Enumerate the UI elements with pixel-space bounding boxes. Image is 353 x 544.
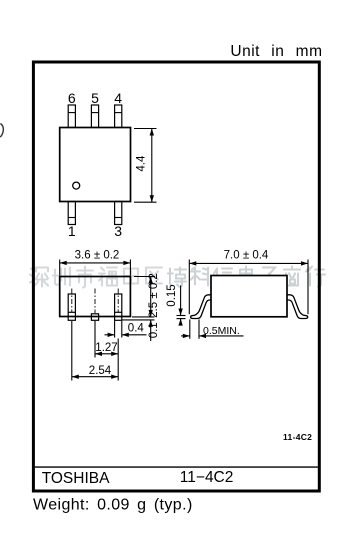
watermark char 博 bbox=[168, 268, 186, 287]
dimension 1.27 extension lines bbox=[94, 321, 96, 358]
dimension 0.15 arrows bbox=[180, 286, 182, 316]
dimension 0.5MIN extension lines bbox=[189, 319, 191, 338]
watermark char 科 bbox=[191, 268, 208, 286]
svg-text:3: 3 bbox=[114, 223, 122, 239]
svg-text:11−4C2: 11−4C2 bbox=[180, 469, 234, 486]
svg-text:Unit in mm: Unit in mm bbox=[230, 43, 322, 60]
stray mark at left edge bbox=[0, 124, 3, 138]
watermark char 市 bbox=[77, 267, 93, 288]
dimension 3.6 extension lines bbox=[59, 260, 61, 276]
svg-text:0.4: 0.4 bbox=[128, 323, 145, 335]
lead 2 front (middle, hidden) bbox=[94, 289, 96, 314]
pin 1 bbox=[68, 202, 75, 225]
dimension 0.4 line bbox=[105, 334, 115, 336]
watermark char 信 bbox=[214, 269, 232, 286]
svg-text:3.6 ± 0.2: 3.6 ± 0.2 bbox=[75, 250, 120, 262]
dimension 3.6 line bbox=[60, 262, 131, 264]
dimension 7.0 extension lines bbox=[188, 260, 190, 315]
dimension 2.5 line bbox=[150, 277, 152, 317]
svg-text:2.54: 2.54 bbox=[89, 365, 112, 377]
pin 5 bbox=[91, 105, 98, 128]
svg-text:Weight: 0.09 g (typ.): Weight: 0.09 g (typ.) bbox=[33, 497, 193, 514]
dimension 1.27 line bbox=[95, 353, 118, 355]
svg-text:7.0 ± 0.4: 7.0 ± 0.4 bbox=[224, 250, 269, 262]
dimension 0.1 extension lines bbox=[132, 316, 155, 318]
pin 4 bbox=[115, 105, 122, 128]
dimension 4.4 line bbox=[151, 129, 153, 203]
dimension 0.4 extension lines bbox=[114, 321, 116, 338]
pin 3 bbox=[115, 202, 122, 225]
svg-text:1.27: 1.27 bbox=[95, 342, 117, 354]
package body front view bbox=[60, 277, 131, 317]
dimension 0.5MIN line bbox=[181, 335, 190, 337]
svg-text:TOSHIBA: TOSHIBA bbox=[42, 470, 110, 487]
dimension 2.54 line bbox=[72, 376, 118, 378]
watermark char 福 bbox=[99, 268, 117, 286]
svg-text:0.15: 0.15 bbox=[166, 284, 178, 306]
lead 3 front (right) bbox=[115, 294, 122, 320]
watermark char 深 bbox=[30, 268, 48, 287]
svg-text:1: 1 bbox=[68, 223, 76, 239]
svg-text:11-4C2: 11-4C2 bbox=[283, 432, 312, 442]
svg-text:6: 6 bbox=[68, 90, 76, 106]
lead 1 front (left) bbox=[68, 294, 75, 320]
pin 6 bbox=[68, 105, 75, 128]
svg-text:4: 4 bbox=[114, 90, 122, 106]
svg-text:0.1: 0.1 bbox=[148, 322, 160, 338]
pin 1 indicator circle bbox=[73, 182, 80, 189]
drawing frame bbox=[33, 62, 319, 491]
right gull-wing lead bbox=[287, 295, 308, 319]
watermark char 圳 bbox=[53, 268, 70, 286]
svg-text:2.5 ± 0.2: 2.5 ± 0.2 bbox=[148, 273, 160, 318]
dimension 2.54 extension lines bbox=[71, 321, 73, 381]
svg-text:4.4: 4.4 bbox=[135, 155, 147, 172]
dimension 0.15 extension ticks bbox=[177, 315, 186, 317]
dimension 2.5 extension line top bbox=[134, 276, 155, 278]
package body side view bbox=[211, 276, 287, 317]
watermark char 子 bbox=[261, 268, 277, 288]
dimension 7.0 line bbox=[189, 262, 308, 264]
svg-text:5: 5 bbox=[91, 90, 99, 106]
watermark row: 深圳市福田区博科信电子商行 bbox=[30, 267, 325, 288]
dimension 0.1 lower arrow and line bbox=[150, 320, 152, 341]
watermark char 商 bbox=[284, 267, 300, 286]
title block separator bbox=[35, 466, 318, 468]
watermark char 田 bbox=[124, 269, 138, 284]
svg-text:0.5MIN.: 0.5MIN. bbox=[203, 325, 240, 337]
watermark char 电 bbox=[240, 267, 255, 286]
left gull-wing lead bbox=[191, 295, 212, 319]
watermark char 行 bbox=[306, 267, 325, 287]
package body top view bbox=[60, 128, 131, 202]
dimension 4.4 extension lines bbox=[134, 128, 157, 130]
watermark char 区 bbox=[146, 268, 162, 284]
